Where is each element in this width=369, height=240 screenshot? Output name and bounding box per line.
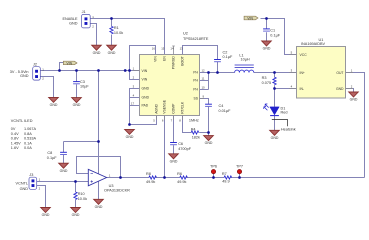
svg-text:1.067A: 1.067A	[24, 127, 37, 131]
svg-text:R1: R1	[114, 26, 119, 30]
svg-text:1: 1	[133, 67, 135, 71]
svg-text:0V: 0V	[11, 127, 16, 131]
svg-text:C6: C6	[178, 142, 183, 146]
svg-text:10µF: 10µF	[80, 85, 89, 89]
svg-text:9: 9	[203, 95, 205, 99]
svg-text:0.0A: 0.0A	[24, 146, 32, 150]
svg-text:49.9k: 49.9k	[177, 180, 186, 184]
svg-text:J3: J3	[29, 173, 33, 177]
svg-text:15: 15	[161, 46, 165, 50]
svg-text:14: 14	[170, 46, 174, 50]
svg-text:11: 11	[202, 77, 205, 81]
svg-text:U2: U2	[183, 32, 188, 36]
svg-text:R7: R7	[222, 172, 227, 176]
svg-text:TPS54218RTE: TPS54218RTE	[183, 37, 209, 41]
svg-text:0.4V: 0.4V	[11, 132, 19, 136]
svg-text:4: 4	[291, 85, 293, 89]
svg-text:17: 17	[131, 102, 135, 106]
svg-text:R4: R4	[191, 128, 196, 132]
svg-text:GND: GND	[69, 22, 78, 26]
svg-text:VIN: VIN	[154, 56, 158, 62]
svg-text:2: 2	[42, 77, 44, 81]
svg-text:RT/CLK: RT/CLK	[181, 101, 185, 114]
svg-text:TP6: TP6	[210, 164, 217, 168]
svg-text:GND: GND	[142, 96, 150, 100]
svg-text:VSENSE: VSENSE	[163, 99, 167, 113]
svg-text:GND: GND	[20, 74, 29, 78]
svg-text:C3: C3	[80, 80, 85, 84]
svg-text:0.075: 0.075	[262, 81, 272, 85]
svg-text:2: 2	[39, 187, 41, 191]
svg-text:VIN: VIN	[247, 17, 253, 21]
svg-text:1.6V: 1.6V	[11, 146, 19, 150]
svg-text:0.8V: 0.8V	[11, 137, 19, 141]
svg-text:EN: EN	[163, 56, 167, 61]
svg-text:4: 4	[133, 94, 135, 98]
svg-text:49.9k: 49.9k	[146, 180, 155, 184]
svg-text:U3: U3	[109, 184, 114, 188]
svg-text:ILED: ILED	[24, 119, 33, 123]
svg-text:10.0k: 10.0k	[78, 197, 87, 201]
svg-text:0.1µF: 0.1µF	[223, 55, 233, 59]
svg-text:5: 5	[291, 51, 293, 55]
svg-text:PH: PH	[193, 79, 198, 83]
svg-text:AGND: AGND	[155, 103, 159, 113]
svg-text:VIN: VIN	[142, 78, 148, 82]
svg-text:R10: R10	[78, 192, 85, 196]
svg-text:C1: C1	[270, 29, 275, 33]
svg-text:0.1A: 0.1A	[24, 141, 32, 145]
svg-text:R6: R6	[177, 172, 182, 176]
svg-text:ENABLE: ENABLE	[63, 17, 78, 21]
svg-text:GND: GND	[20, 187, 29, 191]
svg-text:C8: C8	[47, 151, 52, 155]
svg-text:182k: 182k	[192, 136, 200, 140]
svg-text:VCNTL: VCNTL	[16, 181, 28, 185]
svg-text:PH: PH	[193, 71, 198, 75]
svg-text:7: 7	[171, 118, 173, 122]
svg-text:1MHz: 1MHz	[189, 119, 199, 123]
svg-text:2: 2	[92, 24, 94, 28]
svg-text:12: 12	[202, 69, 206, 73]
svg-text:C4: C4	[219, 104, 224, 108]
svg-text:0.8A: 0.8A	[24, 132, 32, 136]
svg-text:VIN: VIN	[142, 69, 148, 73]
svg-text:3: 3	[291, 69, 293, 73]
svg-text:TP7: TP7	[236, 164, 243, 168]
svg-text:2: 2	[351, 85, 353, 89]
svg-text:5: 5	[153, 118, 155, 122]
svg-text:R3: R3	[262, 76, 267, 80]
svg-text:Red: Red	[281, 111, 288, 115]
svg-text:10: 10	[202, 86, 206, 90]
svg-text:VCNTL: VCNTL	[11, 119, 23, 123]
svg-text:0.1µF: 0.1µF	[270, 33, 280, 37]
svg-text:GND: GND	[142, 87, 150, 91]
svg-text:3: 3	[133, 85, 135, 89]
svg-text:C2: C2	[223, 50, 228, 54]
svg-text:16: 16	[152, 46, 156, 50]
svg-text:IN-: IN-	[300, 87, 305, 91]
svg-text:10µH: 10µH	[241, 58, 250, 62]
svg-text:R8: R8	[146, 172, 151, 176]
svg-text:0.1µF: 0.1µF	[47, 156, 57, 160]
svg-text:VIN: VIN	[66, 61, 72, 65]
svg-text:1: 1	[351, 69, 353, 73]
svg-text:GND: GND	[336, 87, 344, 91]
svg-text:PH: PH	[193, 88, 198, 92]
svg-text:6: 6	[162, 118, 164, 122]
svg-text:PWRGD: PWRGD	[172, 56, 176, 70]
svg-text:SS: SS	[193, 97, 198, 101]
svg-text:0.01µF: 0.01µF	[219, 109, 232, 113]
svg-text:1: 1	[39, 178, 41, 182]
svg-text:PAD: PAD	[142, 104, 149, 108]
svg-text:VCC: VCC	[300, 53, 308, 57]
svg-text:4700pF: 4700pF	[178, 147, 192, 151]
svg-text:INA169AIDBV: INA169AIDBV	[301, 42, 326, 46]
svg-text:IN+: IN+	[300, 71, 305, 75]
svg-text:J2: J2	[33, 62, 37, 66]
svg-text:BOOT: BOOT	[181, 56, 185, 66]
svg-text:Heatsink: Heatsink	[281, 128, 296, 132]
svg-text:J1: J1	[82, 10, 86, 14]
svg-text:OPA313IDCKR: OPA313IDCKR	[104, 189, 130, 193]
svg-text:8: 8	[179, 118, 181, 122]
svg-text:13: 13	[180, 46, 184, 50]
svg-text:OUT: OUT	[336, 71, 343, 75]
svg-text:49.9: 49.9	[222, 180, 229, 184]
svg-text:0.533A: 0.533A	[24, 137, 37, 141]
svg-text:10.0k: 10.0k	[114, 31, 123, 35]
svg-text:1.45V: 1.45V	[11, 141, 21, 145]
svg-text:2: 2	[133, 76, 135, 80]
svg-text:COMP: COMP	[172, 103, 176, 114]
